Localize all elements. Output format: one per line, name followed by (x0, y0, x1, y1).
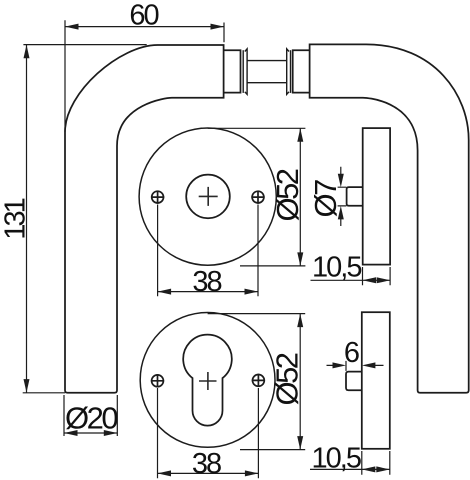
collar ring left (242, 50, 244, 93)
dim dia52 top extension lines (208, 128, 306, 266)
svg-text:131: 131 (0, 198, 32, 239)
dim dia20 extension lines (64, 395, 117, 436)
svg-text:60: 60 (129, 0, 158, 32)
arrows 131 (24, 45, 30, 59)
collar ring right (290, 50, 292, 93)
arrows 10,5 bottom (362, 466, 376, 472)
arrows dia52 bottom (297, 314, 303, 328)
arrows dia52 top (297, 128, 303, 142)
rosette side view top (363, 128, 390, 265)
svg-text:Ø7: Ø7 (308, 180, 343, 218)
screw bottom-right (253, 375, 265, 387)
neck left (224, 50, 241, 92)
dim dia52 bottom extension lines (208, 314, 306, 450)
svg-text:38: 38 (192, 266, 221, 298)
cylinder bump side view (346, 372, 362, 391)
dim 38 bottom extension lines (158, 388, 259, 478)
arrows dia7 (338, 174, 344, 188)
dim dia20 line (64, 432, 117, 434)
svg-text:10,5: 10,5 (312, 442, 361, 474)
dim 38 top extension lines (158, 205, 258, 297)
screw top-left (152, 191, 164, 203)
dim 10,5 bottom extension lines (362, 451, 390, 475)
rosette bottom outer circle (140, 313, 275, 448)
spindle pin side view (347, 187, 363, 206)
dim 10,5 top extension lines (363, 267, 391, 285)
arrows dia20 (64, 430, 78, 436)
dim 38 top line (158, 291, 258, 293)
dim 60 extension lines (65, 20, 224, 132)
dim 6 arrow tails (327, 364, 384, 366)
dim 131 line (26, 45, 28, 393)
dim 38 bottom line (158, 472, 259, 474)
neck right (293, 50, 310, 92)
svg-text:Ø52: Ø52 (270, 169, 305, 221)
dim dia52 top line (299, 128, 301, 266)
arrows 6 (333, 362, 347, 368)
center cross bottom (199, 372, 217, 390)
dim dia52 bottom line (299, 314, 301, 450)
screw top-right (252, 191, 264, 203)
dim dia7 arrow lines (340, 167, 342, 226)
dim 10,5 bottom line (310, 468, 390, 470)
center cross top (199, 187, 218, 206)
svg-text:38: 38 (192, 448, 221, 480)
arrows 10,5 top (363, 277, 377, 283)
dim 10,5 top line (311, 279, 391, 281)
svg-text:6: 6 (344, 337, 359, 369)
dim 60 line (65, 26, 224, 28)
screw bottom-left (152, 375, 164, 387)
rosette top outer circle (139, 128, 276, 265)
dim dia7 ticks (338, 187, 347, 206)
arrows 60 (65, 24, 79, 30)
svg-text:10,5: 10,5 (312, 252, 361, 284)
rosette side view bottom (362, 312, 390, 449)
lever handle left outline (65, 45, 224, 393)
arrows 38 bottom (158, 470, 172, 476)
rosette top inner hole (186, 175, 230, 219)
spindle (247, 61, 287, 83)
arrows 38 top (158, 289, 172, 295)
svg-text:Ø52: Ø52 (270, 353, 305, 405)
dim 6 tick (345, 361, 347, 371)
euro profile cutout (183, 335, 232, 426)
lever handle right outline (310, 44, 469, 392)
svg-text:Ø20: Ø20 (65, 400, 118, 435)
dim 131 extension lines (23, 45, 147, 393)
